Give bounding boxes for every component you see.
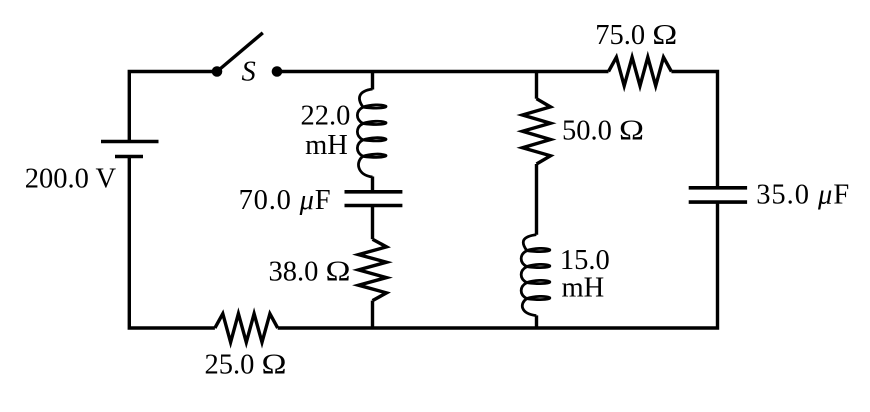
svg-text:25.0 Ω: 25.0 Ω [205, 350, 287, 381]
svg-text:38.0 Ω: 38.0 Ω [269, 257, 351, 288]
svg-text:mH: mH [305, 130, 348, 161]
svg-text:75.0 Ω: 75.0 Ω [595, 20, 677, 51]
svg-text:mH: mH [562, 273, 605, 304]
svg-text:15.0: 15.0 [560, 245, 610, 276]
svg-text:200.0 V: 200.0 V [25, 164, 117, 195]
svg-text:35.0 μF: 35.0 μF [756, 180, 849, 211]
svg-text:70.0 μF: 70.0 μF [239, 185, 331, 216]
svg-text:22.0: 22.0 [300, 101, 350, 132]
svg-text:50.0 Ω: 50.0 Ω [562, 116, 644, 147]
svg-text:S: S [242, 57, 256, 88]
